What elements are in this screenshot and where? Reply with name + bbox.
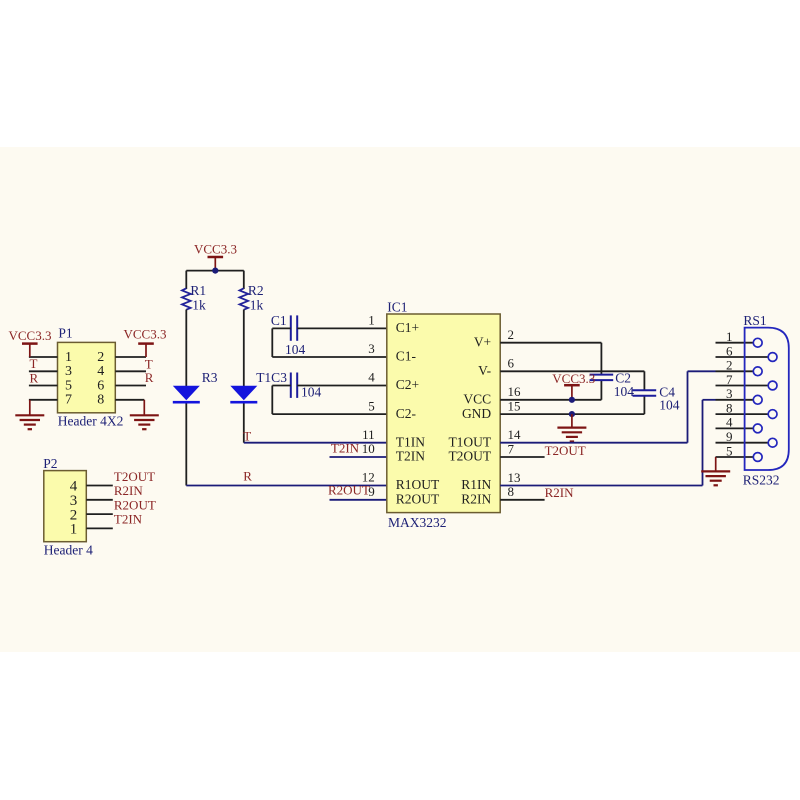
svg-text:R2OUT: R2OUT xyxy=(328,483,370,498)
connector P2 Header 4 body xyxy=(44,471,87,542)
svg-text:R1: R1 xyxy=(190,283,206,298)
wire P1 pin8 stub right xyxy=(115,399,144,401)
svg-text:R: R xyxy=(243,468,252,483)
svg-text:R2OUT: R2OUT xyxy=(396,492,440,507)
svg-text:R1IN: R1IN xyxy=(461,477,491,492)
svg-text:6: 6 xyxy=(508,356,515,371)
wire right diode cathode down xyxy=(243,404,245,443)
capacitor C1 plates xyxy=(291,315,297,340)
svg-text:3: 3 xyxy=(65,364,72,379)
power VCC3.3 symbol right of P1 xyxy=(138,344,154,357)
svg-text:VCC3.3: VCC3.3 xyxy=(9,328,52,343)
wire V+ pin2 horizontal xyxy=(500,342,601,344)
wire P1 pin6 stub right xyxy=(115,385,146,387)
svg-text:T2IN: T2IN xyxy=(114,512,143,527)
svg-text:4: 4 xyxy=(368,370,375,385)
capacitor C2 plates xyxy=(590,375,614,381)
connector RS1 DB9 outline xyxy=(745,328,789,470)
junction dot VCC wire xyxy=(569,397,575,403)
svg-text:C1+: C1+ xyxy=(396,320,419,335)
svg-text:T2OUT: T2OUT xyxy=(545,443,586,458)
svg-text:5: 5 xyxy=(65,378,72,393)
RS232 pin5 circle xyxy=(753,453,762,462)
svg-text:V-: V- xyxy=(478,363,492,378)
wire C1 left vertical xyxy=(271,328,273,357)
svg-text:9: 9 xyxy=(368,484,375,499)
wire P2 pin3 stub xyxy=(86,499,113,501)
svg-text:VCC: VCC xyxy=(463,392,491,407)
svg-text:1: 1 xyxy=(70,522,78,538)
svg-text:R2OUT: R2OUT xyxy=(114,497,156,512)
svg-text:VCC3.3: VCC3.3 xyxy=(124,327,167,342)
wire C1 left plate lead xyxy=(272,327,291,329)
svg-text:T2OUT: T2OUT xyxy=(448,449,491,464)
svg-text:104: 104 xyxy=(285,342,306,357)
RS232 pin8 circle xyxy=(768,410,777,419)
IC IC1 MAX3232 body xyxy=(387,314,500,513)
wire P1 pin2 stub right xyxy=(115,356,146,358)
wire R2 top lead xyxy=(243,271,245,289)
wire C1 right plate to IC xyxy=(297,327,387,329)
wire RS232 pin9 stub xyxy=(716,442,769,444)
svg-text:15: 15 xyxy=(508,399,521,414)
svg-text:C2-: C2- xyxy=(396,406,417,421)
svg-text:T: T xyxy=(30,356,38,371)
wire net R2OUT stub to IC pin9 xyxy=(330,499,387,501)
svg-text:8: 8 xyxy=(97,393,104,408)
RS232 pin4 circle xyxy=(753,424,762,433)
svg-text:R2IN: R2IN xyxy=(461,492,491,507)
svg-text:11: 11 xyxy=(362,427,375,442)
RS232 pin2 circle xyxy=(753,367,762,376)
wire R1IN to RS232 pin3 xyxy=(703,399,716,401)
svg-text:MAX3232: MAX3232 xyxy=(388,515,447,530)
svg-text:RS232: RS232 xyxy=(743,472,780,487)
svg-text:2: 2 xyxy=(508,327,515,342)
svg-text:V+: V+ xyxy=(474,334,491,349)
wire R1IN pin13 horizontal xyxy=(500,485,702,487)
svg-text:7: 7 xyxy=(508,441,515,456)
ground symbol right of P1 xyxy=(130,400,159,429)
svg-text:T2IN: T2IN xyxy=(331,441,360,456)
svg-text:6: 6 xyxy=(97,378,104,393)
wire RS232 pin8 stub xyxy=(716,413,769,415)
svg-text:12: 12 xyxy=(362,470,375,485)
svg-text:P2: P2 xyxy=(43,456,57,471)
svg-text:2: 2 xyxy=(97,350,104,365)
diode right xyxy=(230,386,257,404)
svg-text:C1-: C1- xyxy=(396,349,417,364)
wire P2 pin2 stub xyxy=(86,513,113,515)
wire R1 top to R2 top xyxy=(186,270,244,272)
svg-text:R2: R2 xyxy=(248,283,264,298)
svg-text:2: 2 xyxy=(726,358,733,373)
svg-text:R: R xyxy=(30,370,39,385)
wire P2 pin4 stub xyxy=(86,485,113,487)
svg-text:Header 4: Header 4 xyxy=(44,542,93,557)
resistor R2 xyxy=(240,288,249,309)
svg-text:16: 16 xyxy=(508,384,522,399)
junction dot VCC R1 R2 xyxy=(212,268,218,274)
svg-text:7: 7 xyxy=(726,372,733,387)
svg-text:8: 8 xyxy=(508,484,515,499)
wire C1 bottom to IC xyxy=(272,356,387,358)
RS232 pin3 circle xyxy=(753,395,762,404)
power VCC3.3 symbol at VCC wire xyxy=(564,385,580,400)
svg-text:VCC3.3: VCC3.3 xyxy=(194,241,237,256)
svg-text:4: 4 xyxy=(726,415,733,430)
svg-text:1k: 1k xyxy=(250,298,264,313)
svg-text:3: 3 xyxy=(726,386,733,401)
svg-text:T1C3: T1C3 xyxy=(256,370,287,385)
svg-text:104: 104 xyxy=(614,384,635,399)
wire P1 pin5 stub left xyxy=(29,385,58,387)
wire RS232 pin4 stub xyxy=(716,427,754,429)
svg-text:7: 7 xyxy=(65,393,72,408)
wire RS232 pin3 stub xyxy=(716,399,754,401)
svg-text:R2IN: R2IN xyxy=(114,483,143,498)
svg-text:GND: GND xyxy=(462,406,491,421)
svg-text:R: R xyxy=(145,370,154,385)
ground symbol below GND wire xyxy=(557,414,586,441)
wire T1C3 right plate to IC xyxy=(297,385,387,387)
svg-text:104: 104 xyxy=(659,398,680,413)
svg-text:P1: P1 xyxy=(58,326,72,341)
svg-text:R2IN: R2IN xyxy=(545,485,575,500)
wire C2 bottom to VCC wire xyxy=(600,380,602,400)
wire T2OUT pin7 stub xyxy=(500,456,544,458)
capacitor C4 plates xyxy=(633,390,657,396)
svg-text:10: 10 xyxy=(362,441,375,456)
wire P1 pin4 stub right xyxy=(115,370,146,372)
wire RS232 pin7 stub xyxy=(716,385,769,387)
wire T1OUT to RS232 pin2 xyxy=(688,370,716,372)
svg-text:R1OUT: R1OUT xyxy=(396,477,440,492)
wire RS232 pin2 stub xyxy=(716,370,754,372)
wire R1IN vertical up xyxy=(702,400,704,486)
wire V- pin6 horizontal xyxy=(500,370,644,372)
svg-text:T1OUT: T1OUT xyxy=(448,434,491,449)
wire T1C3 bottom to IC xyxy=(272,413,387,415)
wire RS232 pin5 stub xyxy=(716,456,754,458)
svg-text:1: 1 xyxy=(726,329,733,344)
wire V+ vertical to C2 xyxy=(600,343,602,375)
wire T1C3 left vertical xyxy=(271,386,273,415)
junction dot GND wire xyxy=(569,411,575,417)
svg-text:VCC3.3: VCC3.3 xyxy=(552,371,595,386)
connector P1 Header 4X2 body xyxy=(58,342,116,412)
svg-text:R3: R3 xyxy=(202,370,218,385)
diode left (R3) xyxy=(173,386,200,404)
wire P1 pin3 stub left xyxy=(29,370,58,372)
wire GND pin15 horizontal xyxy=(500,413,644,415)
wire RS232 pin6 stub xyxy=(716,356,769,358)
wire T1OUT vertical up xyxy=(687,371,689,442)
svg-text:RS1: RS1 xyxy=(743,313,766,328)
resistor R1 xyxy=(182,288,191,309)
svg-text:5: 5 xyxy=(368,398,375,413)
svg-text:C1: C1 xyxy=(271,313,287,328)
svg-text:1: 1 xyxy=(65,350,72,365)
svg-text:1k: 1k xyxy=(192,298,206,313)
svg-text:104: 104 xyxy=(301,385,322,400)
svg-text:3: 3 xyxy=(368,341,375,356)
wire R1 bottom to diode xyxy=(185,310,187,387)
wire T1OUT pin14 horizontal xyxy=(500,442,687,444)
wire RS232 pin1 stub xyxy=(716,342,754,344)
svg-text:6: 6 xyxy=(726,343,733,358)
ground symbol at RS232 pin5 xyxy=(701,457,730,485)
wire C4 bottom to GND wire xyxy=(643,396,645,414)
wire R2IN pin8 stub xyxy=(500,499,544,501)
RS232 pin1 circle xyxy=(753,338,762,347)
svg-text:9: 9 xyxy=(726,429,733,444)
svg-text:T: T xyxy=(243,429,251,444)
wire net T to IC pin11 xyxy=(244,442,387,444)
wire P2 pin1 stub xyxy=(86,527,113,529)
svg-text:1: 1 xyxy=(368,313,375,328)
wire VCC pin16 horizontal xyxy=(500,399,601,401)
ground symbol left of P1 xyxy=(15,400,44,429)
svg-text:IC1: IC1 xyxy=(387,299,407,314)
wire T1C3 left plate lead xyxy=(272,385,291,387)
RS232 pin7 circle xyxy=(768,381,777,390)
power VCC3.3 symbol left of P1 xyxy=(22,344,38,357)
capacitor T1C3 plates xyxy=(291,373,297,398)
power VCC3.3 symbol above R1 R2 xyxy=(208,257,224,271)
svg-text:T2OUT: T2OUT xyxy=(114,469,155,484)
wire R2 bottom to diode xyxy=(243,310,245,387)
svg-text:T2IN: T2IN xyxy=(396,449,425,464)
wire left diode cathode down xyxy=(185,404,187,486)
RS232 pin9 circle xyxy=(768,438,777,447)
svg-text:C2+: C2+ xyxy=(396,377,419,392)
svg-text:4: 4 xyxy=(97,364,104,379)
wire P1 pin1 stub left xyxy=(29,356,58,358)
wire net R to IC pin12 xyxy=(186,485,386,487)
wire net T2IN stub to IC pin10 xyxy=(330,456,387,458)
svg-text:T1IN: T1IN xyxy=(396,434,425,449)
wire P1 pin7 stub left xyxy=(29,399,58,401)
RS232 pin6 circle xyxy=(768,353,777,362)
wire V- vertical to C4 xyxy=(643,371,645,390)
svg-text:13: 13 xyxy=(508,470,521,485)
svg-text:14: 14 xyxy=(508,427,522,442)
svg-text:Header 4X2: Header 4X2 xyxy=(58,413,124,428)
svg-text:5: 5 xyxy=(726,443,733,458)
wire R1 top lead xyxy=(185,271,187,289)
svg-text:8: 8 xyxy=(726,400,733,415)
